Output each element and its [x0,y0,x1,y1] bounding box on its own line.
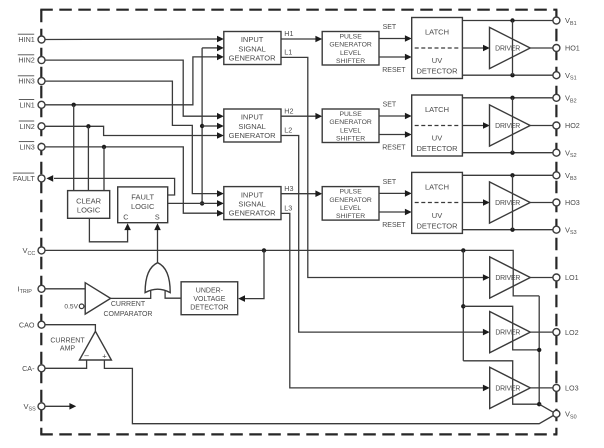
wire LO feed rail [462,250,464,360]
svg-text:L3: L3 [284,204,292,213]
wire driver LO2 to pin [530,331,553,333]
svg-text:S: S [155,213,160,222]
wire HIN1 to ISG1 top input [45,38,218,41]
svg-text:0.5V: 0.5V [64,304,78,311]
svg-text:GENERATOR: GENERATOR [229,54,276,63]
arrowhead input 3 ISG3 [217,210,224,217]
current comparator triangle [85,283,110,314]
svg-text:DETECTOR: DETECTOR [190,304,228,311]
svg-text:LATCH: LATCH [425,105,449,114]
svg-text:HO3: HO3 [565,198,580,207]
svg-text:GENERATOR: GENERATOR [329,197,372,204]
wire latch to driver1 [462,47,483,49]
wire L3 output to LO3 driver [281,213,484,388]
wire LIN3 branch to clear logic [103,147,105,191]
wire current amp noninverting input to VS0 [104,360,553,424]
wire LIN1 to ISG1 bottom input [45,57,218,105]
pin CA- [38,365,45,372]
wire VB1 [462,20,553,22]
wire return rail to VS0 pin [539,404,553,412]
pin HO1 [553,45,560,52]
svg-text:LEVEL: LEVEL [340,127,361,134]
svg-text:UNDER-: UNDER- [196,287,224,294]
junction dot VS2 rail [510,151,514,155]
junction dot LIN2 branch [86,124,90,128]
latch UV detector block U2 [412,95,463,156]
driver HO3 [490,182,531,223]
svg-text:PULSE: PULSE [339,111,362,118]
junction dot VS1 rail [510,73,514,77]
svg-text:SIGNAL: SIGNAL [238,200,266,209]
wire VSS stub [45,405,70,407]
svg-text:SHIFTER: SHIFTER [336,213,365,220]
svg-text:L1: L1 [284,48,292,57]
wire H3 output [281,193,316,195]
pulse generator level shifter PG1 [322,32,379,66]
junction dot VB1 rail [510,18,514,22]
svg-text:LO3: LO3 [565,384,579,393]
wire fault logic output to ISG3 middle input [168,202,218,204]
wire RESET1 [379,56,406,58]
svg-text:AMP: AMP [60,346,76,353]
pin CAO [38,321,45,328]
svg-text:DETECTOR: DETECTOR [416,221,458,230]
svg-text:PULSE: PULSE [339,189,362,196]
input signal generator ISG1 [224,32,281,65]
pulse generator level shifter PG3 [322,187,379,221]
svg-text:RESET: RESET [382,67,406,74]
svg-text:C: C [123,213,128,222]
wire VCC to UV detector [244,250,265,298]
svg-text:HIN1: HIN1 [18,35,34,44]
wire latch to driver2 [462,125,483,127]
svg-text:+: + [102,351,107,360]
junction dot LO2 return [537,348,541,352]
junction dot VCC to LO feed rail [461,248,465,252]
svg-text:RESET: RESET [382,144,406,151]
pin HO3 [553,199,560,206]
junction dot VB2 rail [510,96,514,100]
svg-text:LIN2: LIN2 [20,122,35,131]
pin LIN3 [38,143,45,150]
pin FAULT [38,175,45,182]
svg-text:SIGNAL: SIGNAL [238,122,266,131]
pin VS0 [553,410,560,417]
svg-text:LATCH: LATCH [425,183,449,192]
svg-text:CURRENT: CURRENT [111,301,146,308]
wire VCC rail [45,250,539,296]
arrowhead input 1 ISG1 [217,36,224,43]
wire comparator output to OR gate [111,291,151,299]
driver HO2 [490,105,531,146]
wire H1 output [281,38,316,40]
wire LIN2 to ISG2 bottom input [45,126,218,135]
wire driver3 supply rail [512,175,514,229]
arrowhead LO1 driver input [483,274,490,281]
wire L2 output to LO2 driver [281,136,484,333]
wire driver2 to HO2 pin [530,125,553,127]
fault logic block [118,187,168,223]
svg-text:GENERATOR: GENERATOR [329,42,372,49]
wire L1 output to LO1 driver [281,57,484,277]
pin VB2 [553,94,560,101]
wire RESET2 [379,134,406,136]
svg-text:VOLTAGE: VOLTAGE [193,296,225,303]
dashed package border top [40,9,557,11]
svg-text:CURRENT: CURRENT [50,337,85,344]
svg-text:RESET: RESET [382,222,406,229]
input signal generator ISG3 [224,187,281,220]
wire LO2 feed [463,306,539,350]
svg-text:DRIVER: DRIVER [495,385,520,392]
wire VS2 [462,152,553,154]
under-voltage detector block [181,282,238,315]
svg-text:LOGIC: LOGIC [77,206,101,215]
wire VB3 [462,174,553,176]
svg-text:H3: H3 [284,184,293,193]
dashed package border left [40,10,42,435]
svg-text:COMPARATOR: COMPARATOR [103,311,152,318]
svg-text:GENERATOR: GENERATOR [229,131,276,140]
pulse generator level shifter PG2 [322,109,379,143]
svg-text:FAULT: FAULT [131,192,154,201]
wire driver3 to HO3 pin [530,202,553,204]
svg-text:CA-: CA- [22,364,35,373]
svg-text:DETECTOR: DETECTOR [416,144,458,153]
svg-text:DRIVER: DRIVER [495,275,520,282]
arrowhead LO2 driver input [483,329,490,336]
svg-text:SHIFTER: SHIFTER [336,136,365,143]
arrowhead S input [154,223,161,230]
wire VB2 [462,97,553,99]
wire LIN1 branch to clear logic [73,105,75,191]
wire OR gate to fault logic S input [157,229,159,263]
pin HIN2 [38,57,45,64]
wire SET3 [379,192,406,194]
arrowhead VSS [69,403,76,410]
svg-text:PULSE: PULSE [339,34,362,41]
svg-text:–: – [84,351,89,360]
wire driver LO1 to pin [530,277,553,279]
svg-text:SIGNAL: SIGNAL [238,44,266,53]
pin VB1 [553,17,560,24]
svg-text:GENERATOR: GENERATOR [329,119,372,126]
wire RESET3 [379,211,406,213]
junction dot LIN1 branch [72,103,76,107]
svg-text:CLEAR: CLEAR [76,196,102,205]
wire LO3 feed [463,361,539,404]
svg-text:GENERATOR: GENERATOR [229,209,276,218]
arrowhead input 2 ISG1 [217,45,224,52]
wire LO return rail [538,296,540,404]
wire SET2 [379,115,406,117]
wire clear logic to fault logic C input [89,218,127,242]
junction dot VB3 rail [510,173,514,177]
arrowhead FAULT pin [46,175,53,182]
svg-text:HO2: HO2 [565,121,580,130]
pin HIN3 [38,78,45,85]
wire H2 output [281,115,316,117]
arrowhead C input [124,223,131,230]
svg-text:DRIVER: DRIVER [495,45,520,52]
svg-text:LIN3: LIN3 [20,143,35,152]
wire VS1 [462,74,553,76]
junction dot fault rail ISG2 [200,124,204,128]
arrowhead input 2 ISG3 [217,200,224,207]
wire driver1 to HO1 pin [530,47,553,49]
pin VB3 [553,172,560,179]
svg-text:H1: H1 [284,29,293,38]
wire CA- to current amp inverting input [45,360,87,368]
junction dot LIN3 branch [102,145,106,149]
svg-text:UV: UV [432,56,442,65]
wire SET1 [379,38,406,40]
pin VS1 [553,72,560,79]
OR gate fault [145,263,170,293]
pin HO2 [553,122,560,129]
pin VSS [38,403,45,410]
arrowhead input 2 ISG2 [217,123,224,130]
driver HO1 [490,27,531,68]
junction dot LO3 return [537,402,541,406]
driver LO1 [490,257,531,298]
latch UV detector block U3 [412,172,463,233]
wire fault rail to ISG2 middle input [202,125,218,127]
wire LIN3 to ISG3 bottom input [45,147,218,213]
driver LO2 [490,312,531,353]
svg-text:LEVEL: LEVEL [340,50,361,57]
svg-text:INPUT: INPUT [241,190,264,199]
arrowhead input 3 ISG1 [217,54,224,61]
wire latch to driver3 [462,202,483,204]
wire driver2 supply rail [512,98,514,153]
dashed package border bottom [40,433,557,435]
svg-text:UV: UV [432,211,442,220]
current amp triangle [79,331,111,360]
wire CAO to current amp [45,325,95,332]
junction dot VS3 rail [510,228,514,232]
svg-text:HIN2: HIN2 [18,56,34,65]
svg-text:LATCH: LATCH [425,28,449,37]
pin LO3 [553,384,560,391]
arrowhead input 1 ISG3 [217,190,224,197]
inverting bubble 0.5V input [79,304,84,309]
junction dot VCC to UV detector [262,248,266,252]
wire HIN2 to ISG2 top input [45,60,218,116]
latch UV detector block U1 [412,18,463,79]
svg-text:LO1: LO1 [565,273,579,282]
driver LO3 [490,367,531,408]
wire fault rail to ISG1 middle input [202,47,218,49]
pin ITRIP [38,285,45,292]
wire driver1 supply rail [512,21,514,76]
wire UV output to OR gate [165,291,181,299]
pin VS3 [553,226,560,233]
arrowhead input 1 ISG2 [217,113,224,120]
svg-text:DRIVER: DRIVER [495,200,520,207]
pin LO1 [553,274,560,281]
svg-text:HO1: HO1 [565,44,580,53]
clear logic block [68,191,110,219]
wire driver LO3 to pin [530,387,553,389]
pin VCC [38,247,45,254]
junction dot fault rail ISG3 [200,201,204,205]
svg-text:DRIVER: DRIVER [495,330,520,337]
wire fault rail vertical [201,48,203,204]
svg-text:DRIVER: DRIVER [495,123,520,130]
svg-text:SET: SET [383,24,397,31]
svg-text:CAO: CAO [19,320,35,329]
input signal generator ISG2 [224,109,281,142]
pin LO2 [553,329,560,336]
svg-text:LO2: LO2 [565,328,579,337]
svg-text:LEVEL: LEVEL [340,205,361,212]
svg-text:SET: SET [383,101,397,108]
wire LIN2 branch to clear logic [87,126,89,190]
svg-text:INPUT: INPUT [241,113,264,122]
wire ITRIP to comparator [45,288,85,290]
pin HIN1 [38,36,45,43]
svg-text:UV: UV [432,134,442,143]
junction dot LO2 feed [461,304,465,308]
arrowhead UV detector supply input [238,295,245,302]
svg-text:FAULT: FAULT [13,174,35,183]
svg-text:LIN1: LIN1 [20,100,35,109]
wire FAULT output to pin [54,178,175,195]
wire HIN3 to ISG3 top input [45,81,218,194]
svg-text:SHIFTER: SHIFTER [336,58,365,65]
pin VS2 [553,149,560,156]
svg-text:LOGIC: LOGIC [131,202,155,211]
svg-text:SET: SET [383,179,397,186]
svg-text:L2: L2 [284,126,292,135]
svg-text:HIN3: HIN3 [18,77,34,86]
svg-text:DETECTOR: DETECTOR [416,66,458,75]
pin LIN2 [38,123,45,130]
arrowhead LO3 driver input [483,385,490,392]
dashed package border right [555,10,557,435]
svg-text:H2: H2 [284,106,293,115]
arrowhead input 3 ISG2 [217,132,224,139]
svg-text:INPUT: INPUT [241,35,264,44]
wire VS3 [462,229,553,231]
pin LIN1 [38,101,45,108]
